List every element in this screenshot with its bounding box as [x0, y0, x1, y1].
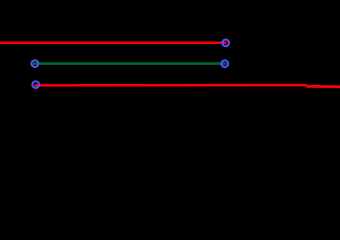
marker row 2 start	[32, 60, 39, 67]
red interval line row 3 left segment	[34, 84, 306, 87]
marker row 2 end	[221, 60, 228, 67]
red interval line row 3 right segment	[306, 85, 340, 88]
marker row 1 end	[222, 40, 229, 47]
red interval line row 1	[0, 41, 226, 44]
green interval line row 2	[33, 62, 226, 65]
marker row 3 start	[32, 81, 39, 88]
